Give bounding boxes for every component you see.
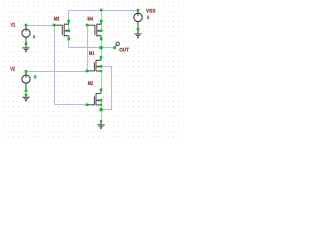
svg-text:0: 0 (34, 74, 37, 80)
svg-text:M3: M3 (54, 16, 60, 22)
svg-text:OUT: OUT (119, 47, 130, 53)
svg-text:VSS: VSS (146, 8, 156, 14)
svg-text:M2: M2 (88, 81, 93, 87)
svg-text:M4: M4 (87, 16, 93, 22)
svg-text:0: 0 (33, 34, 35, 40)
svg-text:5: 5 (147, 15, 150, 21)
svg-text:V2: V2 (10, 66, 15, 72)
svg-text:M1: M1 (89, 51, 94, 57)
svg-text:V1: V1 (11, 23, 16, 29)
